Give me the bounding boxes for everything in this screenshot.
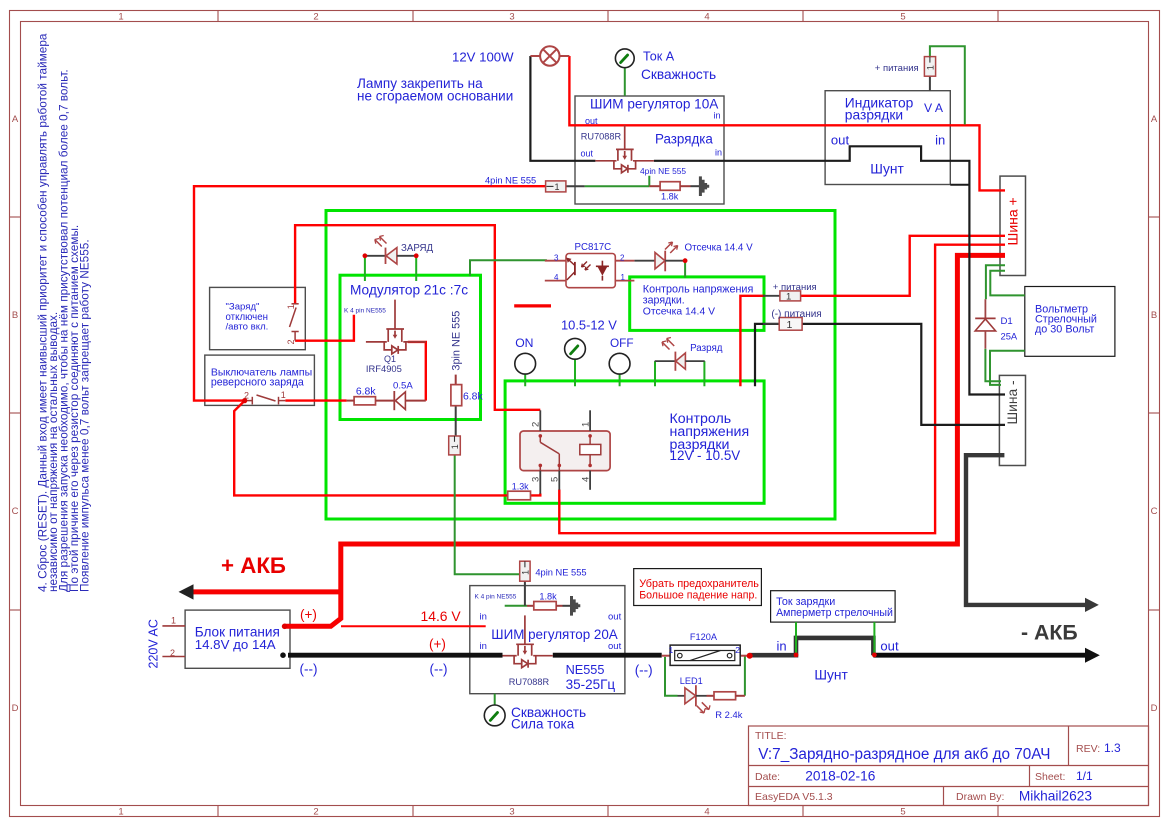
svg-text:Sheet:: Sheet: [1035, 771, 1065, 783]
left margin note (rotated) [36, 33, 92, 592]
svg-text:4: 4 [580, 477, 591, 482]
wire: reverse-lamp switch pin2 to 1.3k to relay pin3 (red) [234, 401, 540, 496]
transistor Q1 IRF4905 [366, 300, 426, 354]
svg-text:2: 2 [244, 391, 249, 401]
text red [221, 197, 1021, 651]
svg-text:1: 1 [281, 390, 286, 400]
wire: 4pin NE555 netport A to reverse-lamp switch (red) [194, 186, 546, 400]
switch S1 charge-off (vertical) [290, 304, 299, 341]
svg-text:IRF4905: IRF4905 [366, 363, 402, 374]
svg-text:2: 2 [313, 12, 318, 23]
wire: thick minus bus fuse to -AKB arrow with shunt bump (black) [750, 638, 874, 655]
svg-text:1: 1 [286, 304, 296, 309]
title block [749, 726, 1149, 806]
svg-text:F120A: F120A [690, 632, 718, 642]
svg-text:2: 2 [735, 645, 740, 655]
fuse F120A [662, 645, 750, 665]
svg-text:C: C [1151, 506, 1158, 517]
svg-text:2: 2 [313, 807, 318, 818]
svg-text:2: 2 [170, 648, 175, 658]
svg-text:Отсечка 14.4 V: Отсечка 14.4 V [643, 307, 715, 318]
netport A 4pin NE555 (horizontal) [546, 181, 566, 192]
LED ZARYAD [365, 236, 416, 265]
svg-text:4: 4 [554, 273, 559, 282]
svg-text:2: 2 [620, 254, 625, 263]
svg-text:RU7088R: RU7088R [509, 677, 550, 687]
meter 10.5-12V [565, 338, 586, 359]
ground (PWM20A) [570, 596, 580, 616]
wire: thick bus minus to -AKB upper line (dark gray) [966, 455, 1086, 605]
LED Otsechka 14.4V [634, 242, 685, 271]
svg-text:- АКБ: - АКБ [1021, 620, 1078, 644]
wire: bus plus to D1 (green) [986, 265, 1005, 299]
wire: PC817 pin3 to modulator box (green) [470, 260, 547, 276]
svg-text:3: 3 [531, 477, 542, 482]
wire: lamp left down and MOSFET channel to indicator shunt to bus minus (black) [530, 56, 1005, 395]
resistor 6.8k (vertical) [451, 375, 462, 406]
block box charge-off switch [210, 287, 306, 349]
svg-text:1: 1 [787, 319, 793, 331]
svg-text:K 4 pin NE555: K 4 pin NE555 [475, 594, 517, 601]
svg-text:A: A [12, 114, 19, 125]
block box reverse lamp switch [205, 355, 315, 405]
ground (PWM10A) [699, 176, 709, 196]
svg-text:1/1: 1/1 [1076, 769, 1093, 783]
netport F minus power (horizontal) [779, 318, 802, 331]
svg-text:1.3: 1.3 [1104, 741, 1121, 755]
wire: voltmeter bottom to bus minus (green) [990, 351, 1025, 385]
wire: reverse-lamp switch pin1 to 6.8k (red) [285, 399, 346, 401]
svg-text:B: B [1151, 310, 1157, 321]
svg-text:ЗАРЯД: ЗАРЯД [401, 243, 434, 254]
svg-text:Модулятор 21с :7с: Модулятор 21с :7с [350, 283, 468, 298]
svg-text:2: 2 [531, 422, 542, 427]
wire: PWM10A 4pin net (green) [585, 176, 650, 186]
svg-text:1: 1 [669, 645, 674, 655]
svg-text:3pin NE 555: 3pin NE 555 [450, 311, 462, 371]
svg-text:1: 1 [520, 570, 530, 575]
resistor 1.8k (PWM20A) [527, 602, 570, 610]
svg-text:B: B [12, 310, 18, 321]
svg-text:Сила тока: Сила тока [511, 717, 575, 732]
gray lead netport D to indicator block [929, 76, 931, 90]
svg-text:Date:: Date: [755, 771, 780, 783]
svg-text:LED1: LED1 [680, 676, 703, 686]
MOSFET RU7088R in PWM10A [595, 125, 654, 173]
ON circle [515, 353, 536, 374]
svg-text:(--): (--) [430, 662, 448, 677]
svg-text:10.5-12 V: 10.5-12 V [561, 318, 617, 333]
svg-text:K 4 pin NE555: K 4 pin NE555 [344, 308, 386, 315]
svg-text:1.8k: 1.8k [661, 192, 679, 202]
svg-text:2: 2 [286, 339, 296, 344]
svg-text:1: 1 [621, 273, 626, 282]
svg-text:Drawn By:: Drawn By: [956, 791, 1004, 803]
svg-text:2018-02-16: 2018-02-16 [805, 769, 875, 784]
wire: thick minus bus PSU to fuse (black) [288, 653, 662, 658]
arrow head -AKB upper [1085, 598, 1099, 612]
wire: K 4pin NE555 green stub in PWM20A [505, 605, 527, 607]
netport B (vertical) [449, 436, 461, 455]
block box voltmeter [1025, 287, 1115, 357]
svg-text:in: in [935, 133, 945, 148]
svg-text:14.8V до 14A: 14.8V до 14A [195, 637, 276, 652]
svg-text:Большое падение напр.: Большое падение напр. [639, 590, 757, 602]
svg-text:5: 5 [900, 12, 905, 23]
svg-text:0.5A: 0.5A [393, 380, 413, 391]
wire: plus power netport E to bus plus (red) [801, 236, 1005, 296]
svg-text:12V - 10.5V: 12V - 10.5V [670, 448, 741, 463]
wire: netport B down to 4pin netport C (green) [455, 455, 520, 574]
svg-text:Шунт: Шунт [814, 668, 848, 683]
OFF circle [609, 353, 630, 374]
wire: minus power netport F to bus minus (black) [802, 324, 1005, 425]
red dash annotation [514, 304, 551, 307]
block box PWM regulator 10A [575, 96, 724, 204]
netport D plus power (vertical) [924, 57, 935, 77]
svg-text:OFF: OFF [610, 336, 634, 350]
svg-text:Разряд: Разряд [690, 343, 723, 354]
wire: fuse LED1 branch left (green) [665, 657, 678, 696]
netport C 4pin NE555 (vertical) [520, 561, 531, 581]
svg-text:R 2.4k: R 2.4k [715, 709, 742, 720]
meter Tok A [615, 49, 634, 68]
netport E plus power (horizontal) [780, 291, 801, 303]
wire: thick plus battery bus (bus plus to PSU pin1) [285, 255, 1005, 626]
svg-text:out: out [880, 639, 899, 654]
junction dot PSU minus [280, 652, 286, 658]
LED Razryad (points left) [655, 338, 705, 371]
svg-text:Убрать предохранитель: Убрать предохранитель [639, 578, 759, 590]
svg-text:+ питания: + питания [773, 282, 817, 293]
svg-text:до 30 Вольт: до 30 Вольт [1035, 324, 1094, 336]
svg-text:PC817C: PC817C [575, 242, 612, 253]
block box power supply [185, 610, 290, 668]
resistor 1.3k [508, 491, 531, 500]
svg-text:1: 1 [555, 182, 560, 192]
svg-text:4pin NE 555: 4pin NE 555 [640, 166, 686, 176]
relay K1 [520, 410, 610, 493]
svg-text:EasyEDA V5.1.3: EasyEDA V5.1.3 [755, 791, 833, 803]
green annotation box outer [326, 211, 835, 520]
block box charge current meter note [771, 591, 896, 622]
svg-text:RU7088R: RU7088R [581, 131, 622, 141]
svg-text:D: D [1151, 703, 1158, 714]
svg-text:(+): (+) [429, 636, 446, 651]
wire: R2.4k to fuse pin2 (green) [744, 657, 746, 696]
diode D1 25A [975, 299, 995, 349]
svg-text:Разрядка: Разрядка [655, 132, 713, 147]
svg-text:Mikhail2623: Mikhail2623 [1019, 789, 1092, 804]
svg-text:реверсного заряда: реверсного заряда [211, 377, 304, 389]
wire: ZARYAD led stubs (green) [365, 256, 416, 281]
svg-text:25A: 25A [1001, 331, 1018, 342]
svg-text:out: out [585, 116, 598, 126]
svg-text:Шина +: Шина + [1005, 197, 1021, 245]
svg-text:не сгораемом основании: не сгораемом основании [357, 89, 513, 104]
svg-text:12V 100W: 12V 100W [452, 50, 514, 65]
svg-text:in: in [715, 148, 722, 158]
svg-text:(+): (+) [300, 607, 317, 622]
block box discharge indicator [825, 91, 950, 185]
svg-text:1: 1 [118, 12, 123, 23]
optocoupler PC817C U1 [545, 254, 635, 288]
svg-text:+ АКБ: + АКБ [221, 553, 286, 578]
block box remove-fuse note [634, 569, 762, 606]
svg-text:1: 1 [118, 807, 123, 818]
svg-text:1: 1 [580, 422, 591, 427]
svg-text:+ питания: + питания [875, 63, 919, 74]
wire: plus power netport E left red stub down into control box (red) [740, 296, 765, 386]
svg-text:in: in [714, 111, 721, 121]
block box bus minus [999, 375, 1025, 465]
diode 0.5A [394, 391, 426, 410]
gray lead 6.8k bottom to netport B [455, 406, 457, 436]
svg-text:14.6 V: 14.6 V [421, 608, 462, 624]
svg-text:TITLE:: TITLE: [755, 730, 787, 742]
wire: relay pin5 to bus plus (red) [559, 245, 1005, 534]
svg-text:(-) питания: (-) питания [771, 309, 821, 320]
svg-text:4: 4 [704, 12, 709, 23]
svg-text:Шунт: Шунт [870, 162, 904, 177]
svg-text:(--): (--) [300, 662, 318, 677]
wire: PWM20A bottom to duty meter (green) [494, 694, 496, 706]
wire: PSU pin1 to PWM20A in (red) [341, 625, 486, 627]
svg-text:1: 1 [786, 292, 791, 303]
wire: thick plus battery stub with arrow [192, 589, 341, 594]
wire: lamp right to PWM10A out to discharge indicator to bus plus (red) [569, 56, 1005, 190]
svg-text:V:7_Зарядно-разрядное для акб: V:7_Зарядно-разрядное для акб до 70АЧ [758, 746, 1050, 763]
gray lead netport E left [763, 295, 780, 297]
green annotation box Modulator [340, 275, 481, 419]
svg-text:in: in [480, 641, 487, 652]
gray lead netport F left [763, 323, 779, 325]
svg-text:3: 3 [509, 807, 514, 818]
green annotation box charge-control (Kontrol zaryadki) [630, 277, 764, 331]
wire: Tok A meter to PWM10A (green) [624, 68, 626, 96]
block box PWM regulator 20A [470, 586, 625, 694]
svg-text:D: D [12, 703, 19, 714]
svg-text:разрядки: разрядки [845, 108, 903, 123]
svg-text:A: A [1151, 114, 1158, 125]
svg-text:in: in [480, 612, 487, 623]
svg-text:REV:: REV: [1076, 743, 1100, 755]
gray lead netport A to green wire [566, 185, 585, 187]
block box bus plus [1000, 176, 1026, 275]
svg-text:Шина -: Шина - [1005, 380, 1020, 424]
svg-text:in: in [777, 639, 787, 654]
svg-text:ШИМ регулятор 20А: ШИМ регулятор 20А [491, 627, 618, 642]
svg-text:ШИМ регулятор 10А: ШИМ регулятор 10А [590, 97, 719, 112]
svg-text:5: 5 [550, 477, 561, 482]
svg-text:35-25Гц: 35-25Гц [566, 677, 616, 692]
svg-text:D1: D1 [1001, 316, 1013, 327]
arrow head -AKB main [1085, 648, 1100, 663]
svg-text:4pin NE 555: 4pin NE 555 [485, 176, 536, 186]
wire: charge meter note box to shunt (green) [796, 622, 874, 655]
green annotation box discharge-control (Kontrol razryadki) [505, 381, 764, 503]
meter duty cycle (Skvazhnost) [484, 705, 505, 726]
svg-text:out: out [831, 133, 850, 148]
svg-text:Отсечка 14.4 V: Отсечка 14.4 V [685, 243, 754, 254]
LED1 [678, 685, 711, 713]
svg-text:(--): (--) [635, 663, 653, 678]
svg-text:зарядки.: зарядки. [643, 295, 685, 307]
text annotations blue [147, 50, 1097, 732]
svg-text:6.8k: 6.8k [463, 392, 483, 403]
svg-text:Скважность: Скважность [641, 67, 716, 82]
svg-text:1: 1 [171, 615, 176, 625]
svg-text:out: out [608, 612, 622, 623]
svg-text:3: 3 [554, 254, 559, 263]
wire: plus power netport D to red wire (green) [930, 46, 965, 124]
svg-text:out: out [608, 641, 622, 652]
arrow head +AKB [179, 584, 194, 599]
svg-text:3: 3 [509, 12, 514, 23]
svg-text:1.3k: 1.3k [512, 482, 529, 492]
lamp 12V 100W [530, 46, 569, 65]
svg-text:4: 4 [704, 807, 709, 818]
PSU pins [162, 626, 185, 657]
svg-text:Ток A: Ток A [643, 50, 675, 64]
wire: Otsechka LED junction down to charge-control box (green) [684, 261, 686, 278]
svg-text:4pin NE 555: 4pin NE 555 [535, 568, 586, 578]
relay pin number labels [531, 422, 592, 482]
wire: charge-off switch pin1 to relay pin2 (red) [295, 225, 540, 410]
svg-text:1.8k: 1.8k [539, 592, 557, 602]
svg-text:/авто вкл.: /авто вкл. [226, 321, 269, 332]
wire: bus plus to voltmeter top (green) [990, 271, 1025, 296]
svg-text:out: out [581, 149, 594, 159]
svg-text:6.8k: 6.8k [356, 387, 376, 398]
resistor 6.8k (modulator horizontal) [347, 397, 395, 405]
svg-text:NE555: NE555 [566, 663, 605, 677]
svg-text:1: 1 [450, 444, 460, 449]
wire: D1 to bus minus (green) [985, 349, 1001, 382]
wire: indicator block corner stub (black) [950, 184, 969, 186]
svg-text:Амперметр стрелочный: Амперметр стрелочный [776, 607, 893, 619]
pin number labels dark red [170, 304, 296, 658]
resistor 1.8k (PWM10A) [649, 182, 699, 191]
svg-text:1: 1 [926, 65, 936, 70]
text labels navy [344, 63, 919, 687]
svg-text:220V AC: 220V AC [147, 619, 161, 668]
resistor R 2.4k [707, 692, 745, 700]
wire: diode 0.5A to Q1 drain (red) [408, 342, 426, 401]
svg-text:Появление импульса менее 0,7 в: Появление импульса менее 0,7 вольт запре… [78, 239, 92, 592]
wire: ON meter OFF Razryad stubs to control box (green) [525, 359, 704, 386]
gray lead netport C bottom into PWM20A [524, 581, 526, 606]
svg-text:V A: V A [924, 101, 944, 115]
wire: charge-off switch pin2 stub to K4pin label (red) [295, 315, 354, 341]
svg-text:5: 5 [900, 807, 905, 818]
MOSFET RU7088R in PWM20A [503, 615, 553, 667]
switch S2 reverse-lamp (horizontal) [245, 395, 286, 404]
svg-text:C: C [12, 506, 19, 517]
svg-text:ON: ON [515, 336, 533, 350]
wire: minus power netport F left stub down (black) [755, 324, 779, 386]
